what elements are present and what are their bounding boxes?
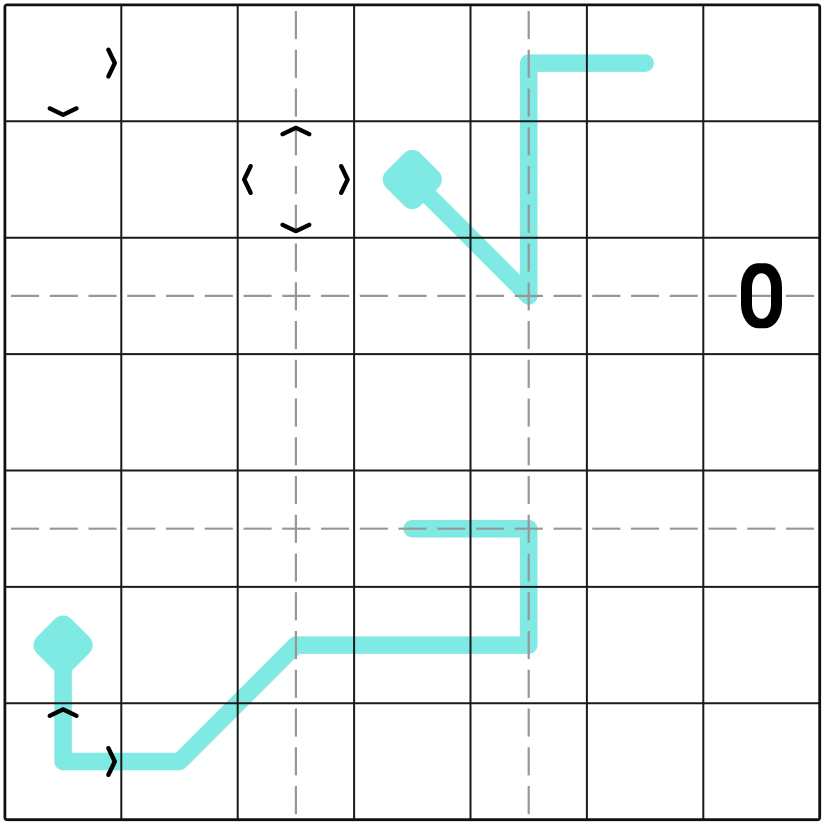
label 0 at cell (6,2): [741, 263, 782, 328]
chevron right, cell (0,0): [108, 50, 114, 77]
path P2 (lower cyan route): [63, 529, 529, 762]
chevron up, cell (2,1): [283, 128, 310, 134]
chevron right, cell (2,1): [341, 166, 347, 193]
path P1 (upper cyan route): [412, 63, 645, 296]
dashed guide row at y=528.7: [11, 528, 820, 530]
chevron up, cell (0,6): [50, 709, 77, 715]
dashed guide column at x=295.9: [295, 11, 297, 820]
chevron down, cell (0,0): [50, 108, 77, 114]
dashed guide row at y=295.9: [11, 295, 820, 297]
diamond marker D2 (lower route start): [29, 611, 98, 680]
dashed guide column at x=528.7: [528, 11, 530, 820]
chevron left, cell (2,1): [244, 166, 250, 193]
chevron down, cell (2,1): [283, 225, 310, 231]
chevron right, cell (0,6): [108, 748, 114, 775]
diamond marker D1 (upper route start): [378, 145, 447, 214]
